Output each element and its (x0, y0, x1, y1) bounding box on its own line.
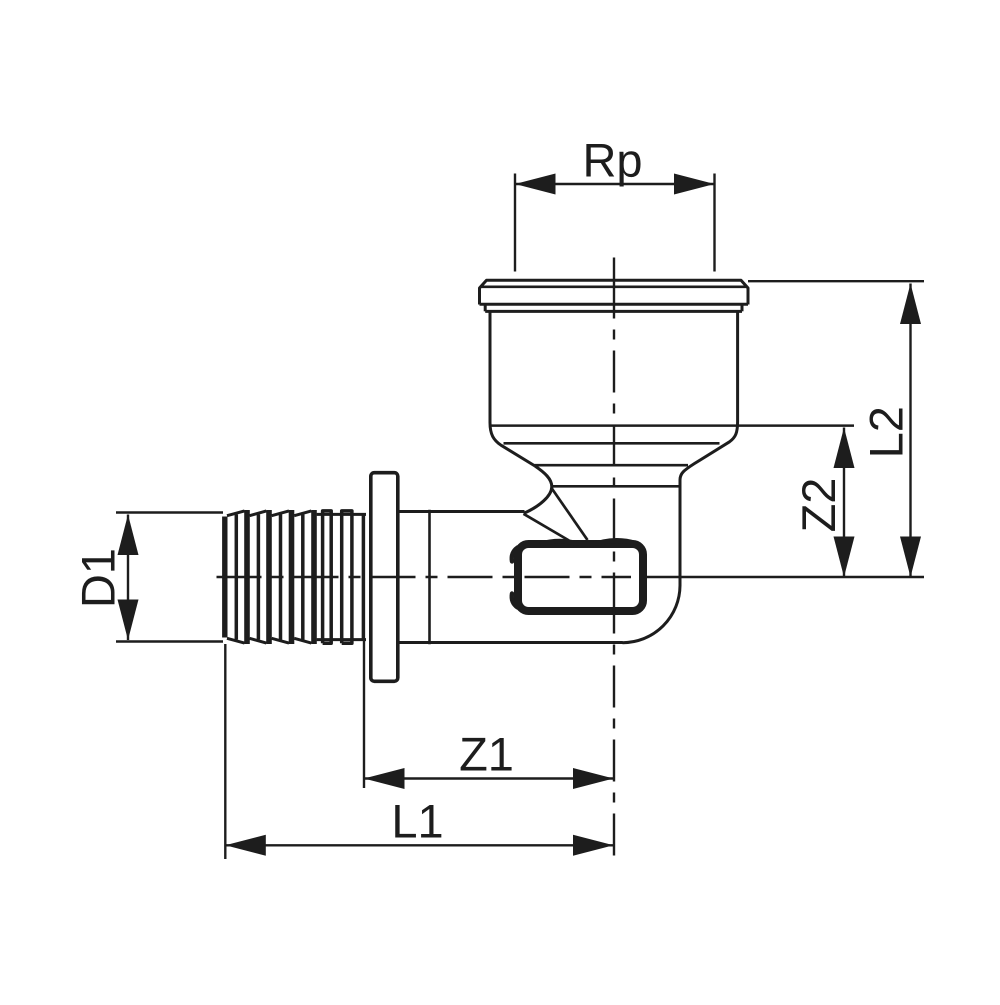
barb groove line 2 (257, 515, 261, 640)
dimension D1 extension line top (116, 511, 223, 513)
cup body left side (490, 312, 535, 467)
cone step line 3 (552, 485, 680, 488)
neck ring left edge (484, 305, 487, 312)
hex body rounded profile (518, 544, 643, 611)
barb rib crest bar 3 (289, 510, 295, 644)
dimension Z1 line (364, 777, 614, 779)
barb rib crest bar 1 (244, 510, 250, 644)
barb top envelope (227, 511, 366, 516)
neck ring bottom edge (485, 310, 742, 313)
elbow outer corner (623, 586, 681, 643)
hex left flat arc bulges (512, 548, 518, 608)
cone nose fillet (524, 466, 552, 513)
barb groove line 4 (301, 515, 305, 640)
dimension L2 line (909, 284, 911, 578)
svg-text:Z2: Z2 (792, 478, 845, 533)
barb rib crest bar 4 (311, 510, 317, 644)
hex top wavy detail (540, 541, 636, 544)
arrowhead L2 down (900, 537, 921, 578)
tube top edge (398, 510, 525, 513)
small rib line 3 (362, 515, 366, 640)
arrowhead Z2 up (834, 428, 855, 469)
arrowhead L1 right (573, 835, 614, 856)
arrowhead Rp left (515, 174, 556, 195)
cone step line 2 (535, 464, 689, 467)
dimension Z2 line (843, 428, 845, 578)
dimensions (116, 174, 924, 860)
cone-to-hex slant left (524, 514, 570, 541)
center lines (217, 258, 632, 860)
dimension Rp line (515, 183, 715, 185)
dimension D1 line (127, 515, 129, 641)
dimension L2 extension line top (748, 280, 924, 282)
arrowhead L1 left (225, 835, 265, 856)
collar flange (371, 473, 398, 682)
barb left end face B0 (222, 517, 227, 638)
arrowhead Z1 right (573, 768, 614, 789)
svg-text:L2: L2 (860, 406, 913, 458)
dimension D1 extension line bottom (116, 640, 223, 642)
arrowhead Z2 down (834, 537, 855, 578)
barb groove line 1 (235, 515, 239, 640)
svg-text:Rp: Rp (582, 134, 642, 187)
arrowhead L2 up (900, 284, 921, 325)
dimension Z1 extension line left (363, 640, 365, 789)
svg-text:Z1: Z1 (459, 727, 514, 780)
cup bottom rim line with Z2 extension (490, 424, 854, 427)
cone-to-hex slant right (552, 488, 588, 540)
arrowhead Z1 left (364, 768, 405, 789)
horizontal centerline of spigot axis (217, 576, 632, 578)
cone step line 1 (504, 442, 720, 445)
svg-text:D1: D1 (72, 548, 125, 608)
vertical centerline of Rp socket (613, 258, 615, 860)
dimension L2 extension line bottom (axis) (647, 576, 925, 578)
cup body right side (680, 312, 738, 586)
top flange outline (480, 280, 749, 304)
neck ring right edge (741, 305, 744, 312)
arrowhead D1 down (118, 600, 139, 641)
barb rib crest bar 2 (266, 510, 272, 644)
arrowhead D1 up (118, 515, 139, 556)
dimension Rp extension line right (713, 174, 715, 272)
svg-text:L1: L1 (391, 795, 443, 848)
tube bottom edge (398, 641, 623, 644)
flange bottom edge (480, 303, 749, 306)
barb bottom envelope (227, 638, 366, 643)
pipe stop step line (428, 510, 431, 645)
dimension L1 line (225, 844, 613, 846)
small rib ring 1 (323, 511, 332, 643)
small rib ring 2 (342, 511, 352, 643)
barb groove line 3 (279, 515, 283, 640)
dimension Rp extension line left (514, 174, 516, 272)
arrowhead Rp right (674, 174, 715, 195)
flange chamfer inner line (481, 285, 747, 288)
dimension L1 extension line left (224, 644, 226, 859)
